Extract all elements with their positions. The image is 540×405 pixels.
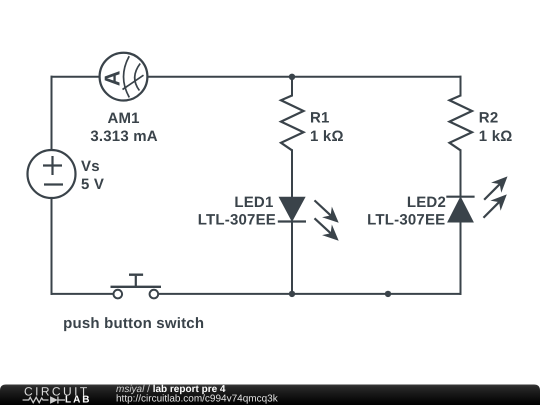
wire LED1 to bottom [291,222,293,294]
svg-text:A: A [100,71,124,87]
wire left wall lower [51,198,53,294]
LED1 light arrow 1 [310,195,344,228]
svg-text:LTL-307EE: LTL-307EE [367,211,445,228]
svg-text:AM1: AM1 [107,110,139,127]
wire top from ammeter to right corner [147,76,460,78]
svg-text:R1: R1 [310,110,330,127]
voltage source Vs [28,150,76,198]
svg-text:LAB: LAB [65,395,92,405]
svg-text:LED1: LED1 [234,194,273,211]
resistor R2 [450,96,473,151]
LED2 diode triangle [448,198,472,222]
svg-text:1 kΩ: 1 kΩ [479,128,513,145]
svg-text:push button switch: push button switch [63,315,204,332]
wire bottom left of push button [52,293,114,295]
logo resistor-diode glyph [23,397,65,404]
svg-text:http://circuitlab.com/c994v74q: http://circuitlab.com/c994v74qmcq3k [116,394,279,405]
LED1 light arrow 2 [310,213,344,246]
node junction bottom (LED1 bottom) [289,291,295,297]
LED1 diode triangle [280,198,304,221]
wire bottom right of push button [158,293,460,295]
LED2 light arrow 2 [478,189,512,223]
wire left wall upper [51,77,53,150]
LED1 cathode bar [278,220,306,222]
svg-text:1 kΩ: 1 kΩ [310,128,344,145]
LED2 cathode bar [446,196,474,198]
svg-text:R2: R2 [479,110,499,127]
wire R1 to LED1 [291,150,293,197]
resistor R1 [281,96,304,151]
node junction top (R1 top) [289,74,295,80]
wire right wall R2 top lead [460,77,462,96]
wire R1 column top lead [291,77,293,96]
wire LED2 to bottom corner [460,222,462,294]
ammeter AM1 [100,53,148,101]
wire top-left horizontal to ammeter [52,76,100,78]
svg-text:Vs: Vs [81,158,100,175]
wire R2 to LED2 bar [460,150,462,196]
svg-text:LED2: LED2 [407,194,446,211]
svg-text:LTL-307EE: LTL-307EE [198,211,276,228]
LED2 light arrow 1 [479,171,513,205]
svg-text:3.313 mA: 3.313 mA [90,128,157,145]
svg-text:5 V: 5 V [81,176,104,193]
footer bar [0,385,540,405]
node junction bottom mid [385,291,391,297]
push button switch SW1 [111,275,162,299]
